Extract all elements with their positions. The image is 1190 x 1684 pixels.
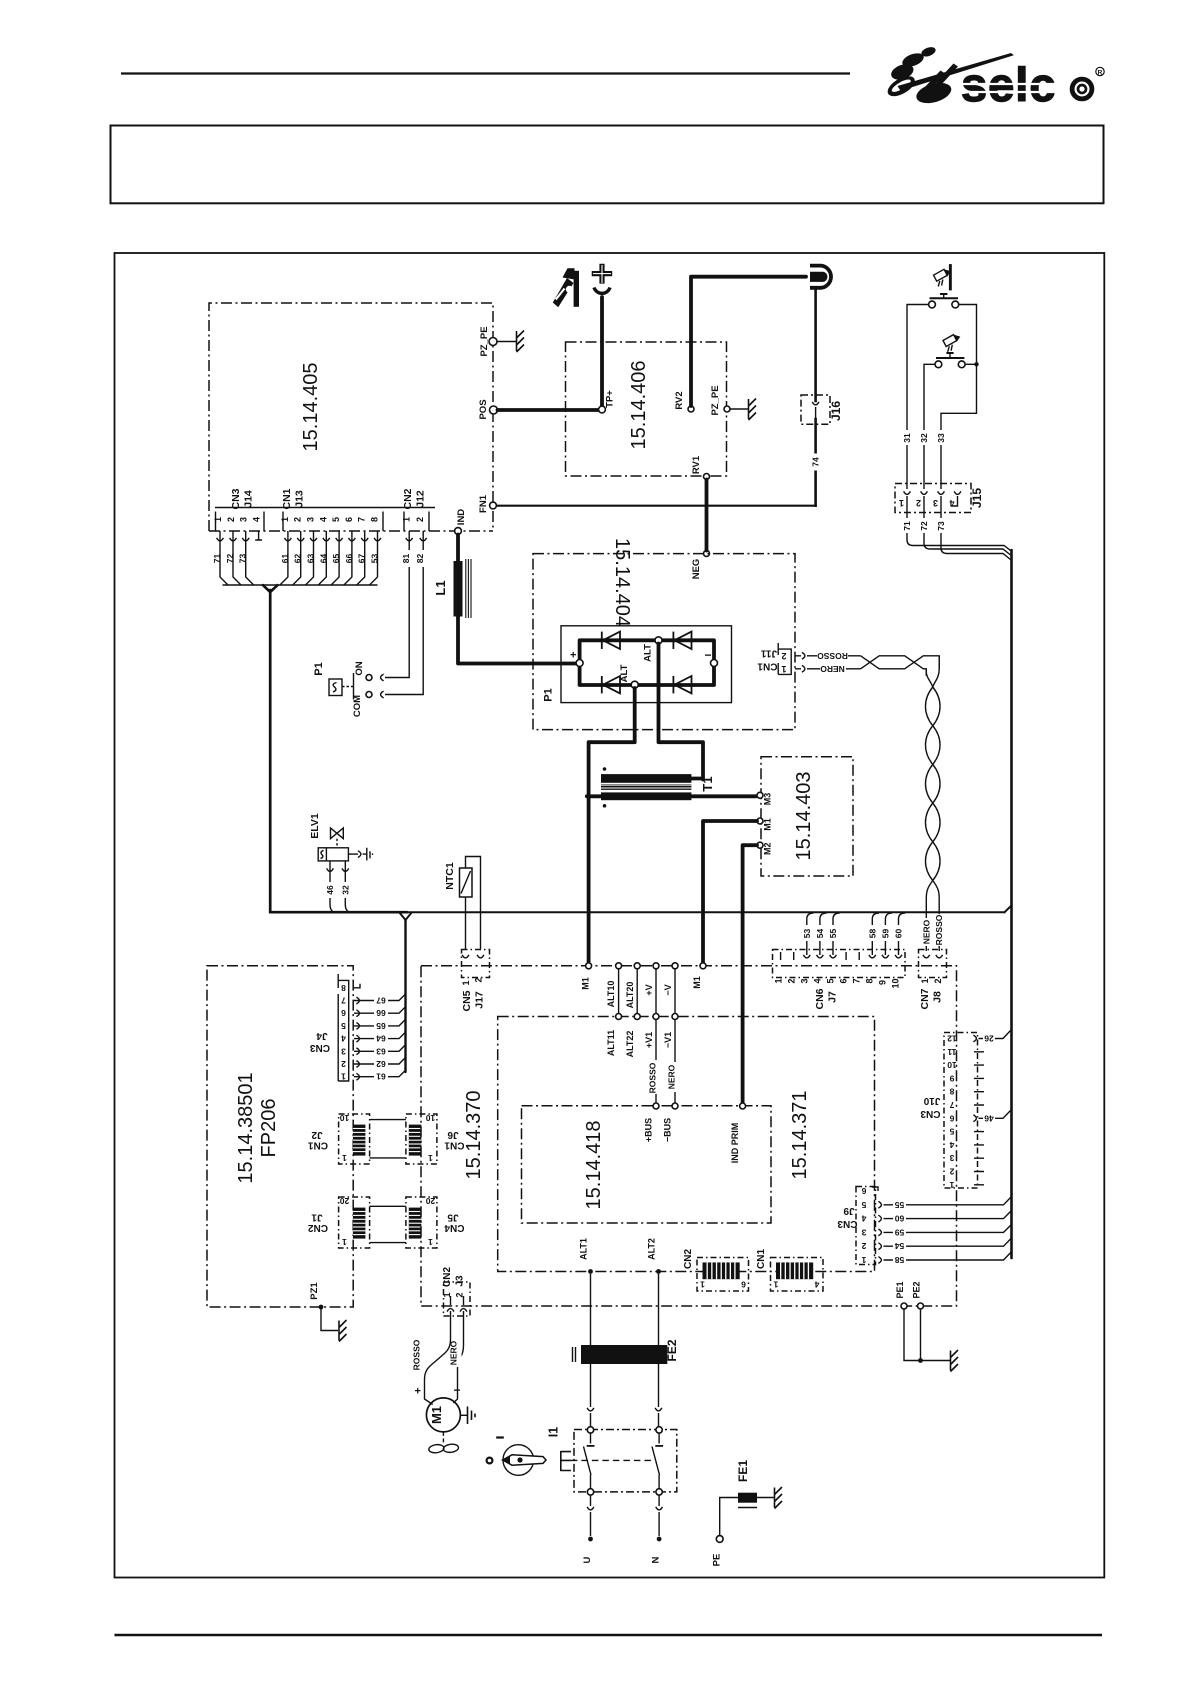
svg-text:FE2: FE2: [665, 1339, 679, 1361]
svg-text:4: 4: [814, 1280, 819, 1290]
svg-text:+V1: +V1: [644, 1032, 654, 1048]
svg-text:54: 54: [895, 1241, 905, 1251]
wires 81 82 to P1: [381, 531, 429, 698]
terminal -V1: [663, 1014, 678, 1049]
svg-text:FP206: FP206: [258, 1099, 280, 1158]
svg-text:15.14.370: 15.14.370: [463, 1091, 485, 1180]
svg-text:NTC1: NTC1: [444, 862, 456, 890]
harness bus vertical: [1010, 550, 1013, 1258]
svg-text:3: 3: [306, 517, 316, 522]
svg-text:CN3: CN3: [310, 1042, 330, 1053]
svg-text:6: 6: [341, 1008, 346, 1018]
motor M1: [415, 1383, 461, 1432]
svg-text:26: 26: [984, 1034, 994, 1044]
terminal IND: [455, 509, 467, 535]
board box 15.14.403: [761, 757, 853, 876]
svg-text:74: 74: [811, 457, 821, 467]
terminal PZ1 + ground: [309, 1282, 347, 1342]
wire IND to L1: [456, 535, 460, 562]
svg-text:4: 4: [949, 1140, 954, 1150]
rectifier P1 box: [543, 626, 732, 703]
svg-text:J14: J14: [243, 490, 255, 508]
svg-text:ALT: ALT: [643, 644, 654, 662]
svg-text:7: 7: [357, 517, 367, 522]
wire ALT1 down + FE2 + U: [582, 1274, 594, 1563]
CN3 J4 wires 67-61: [354, 994, 406, 1077]
secondary left stub: [587, 794, 601, 798]
terminal +V1: [644, 1014, 659, 1049]
rotary knob I1: [487, 1427, 561, 1476]
selco logo swoosh: [888, 45, 1014, 106]
CN6 J7 wires 53-60: [802, 913, 905, 955]
board box 15.14.370: [421, 966, 957, 1306]
connector J15: [895, 484, 984, 513]
wires ROSSO NERO to BUS: [648, 1020, 680, 1104]
svg-text:9: 9: [878, 980, 888, 985]
svg-text:55: 55: [895, 1200, 905, 1210]
svg-text:J5: J5: [447, 1212, 459, 1223]
terminal PZ_PE: [479, 326, 497, 356]
terminal IND PRIM: [730, 1103, 746, 1163]
svg-text:J7: J7: [827, 991, 839, 1003]
svg-text:5: 5: [826, 978, 836, 983]
svg-text:CN1: CN1: [757, 661, 777, 672]
svg-text:59: 59: [880, 929, 890, 939]
svg-text:2: 2: [781, 651, 786, 661]
svg-text:PE: PE: [712, 1554, 723, 1567]
svg-text:PE2: PE2: [912, 1281, 922, 1298]
connector CN2 J12: [402, 488, 430, 531]
board box 15.14.405: [209, 303, 493, 531]
svg-text:J17: J17: [474, 991, 486, 1009]
svg-text:+BUS: +BUS: [644, 1118, 654, 1142]
svg-text:ALT11: ALT11: [606, 1030, 616, 1056]
terminal FN1: [478, 494, 496, 513]
ELV1 gas valve: [309, 813, 373, 861]
svg-text:10: 10: [891, 978, 901, 988]
svg-text:1: 1: [461, 980, 471, 985]
svg-text:CN6: CN6: [814, 988, 826, 1009]
svg-text:CN2: CN2: [442, 1267, 453, 1287]
diode D2: [673, 632, 691, 649]
svg-text:P1: P1: [543, 688, 555, 701]
svg-text:2: 2: [933, 978, 943, 983]
svg-text:66: 66: [376, 1008, 386, 1018]
svg-text:4: 4: [949, 498, 954, 508]
inductor L1: [433, 559, 471, 618]
svg-text:PZ_PE: PZ_PE: [710, 385, 721, 415]
svg-text:ELV1: ELV1: [309, 813, 321, 839]
svg-text:61: 61: [376, 1072, 386, 1082]
svg-text:1: 1: [920, 978, 930, 983]
svg-text:1: 1: [428, 1153, 433, 1163]
svg-text:65: 65: [376, 1021, 386, 1031]
svg-text:J2: J2: [311, 1129, 323, 1140]
svg-text:4: 4: [318, 517, 328, 522]
svg-text:65: 65: [331, 554, 341, 564]
connector CN2 bottom: [683, 1249, 749, 1291]
svg-text:R: R: [1098, 69, 1103, 76]
svg-text:10: 10: [947, 1060, 957, 1070]
wire POS to TP+: [498, 297, 603, 410]
board box 15.14.371: [498, 1017, 875, 1272]
svg-text:64: 64: [318, 554, 328, 564]
svg-text:2: 2: [341, 1059, 346, 1069]
svg-text:NEG: NEG: [691, 559, 702, 580]
svg-text:1: 1: [773, 1280, 778, 1290]
svg-text:M3: M3: [763, 793, 773, 806]
svg-text:12: 12: [947, 1034, 957, 1044]
svg-text:J3: J3: [455, 1275, 466, 1287]
svg-text:+V: +V: [644, 984, 654, 995]
svg-text:1: 1: [428, 1237, 433, 1247]
transformer T1 primary: [601, 774, 691, 783]
svg-text:ALT10: ALT10: [606, 981, 616, 1008]
svg-text:3: 3: [861, 1227, 866, 1237]
svg-text:N: N: [651, 1556, 662, 1563]
NERO ROSSO labels at CN7: [921, 914, 944, 946]
connector CN5 J17: [461, 950, 490, 1012]
wire 74 gun to J16: [814, 290, 817, 401]
svg-text:58: 58: [895, 1255, 905, 1265]
thermal switch 2: [935, 353, 965, 368]
svg-text:NERO: NERO: [667, 1064, 677, 1089]
row2 link wires: [619, 969, 675, 1014]
svg-text:4: 4: [813, 978, 823, 983]
svg-text:COM: COM: [352, 695, 363, 717]
svg-text:CN4: CN4: [444, 1222, 464, 1233]
wire ALT2 down + N: [651, 1274, 663, 1563]
svg-text:53: 53: [370, 554, 380, 564]
svg-text:IND PRIM: IND PRIM: [730, 1123, 740, 1164]
svg-text:3: 3: [239, 517, 249, 522]
svg-text:82: 82: [415, 554, 425, 564]
polarity dot primary: [603, 767, 607, 771]
terminal ALT22: [625, 1014, 640, 1058]
terminal ALT bottom: [619, 664, 638, 688]
terminal ALT2: [647, 1238, 661, 1274]
wire FN1 line: [497, 505, 816, 507]
svg-text:9: 9: [949, 1073, 954, 1083]
svg-text:M1: M1: [692, 976, 702, 989]
wire 32: [924, 364, 935, 489]
diode D1: [602, 632, 620, 649]
wires ROSSO NERO to motor: [412, 1311, 464, 1396]
svg-text:4: 4: [861, 1214, 866, 1224]
ferrite FE1 + PE: [712, 1460, 783, 1567]
header rule: [121, 72, 850, 74]
svg-text:ROSSO: ROSSO: [934, 914, 944, 945]
twisted pair horizontal: [861, 656, 940, 676]
ribbon pair CN1 J2 / CN1 J6: [308, 1113, 370, 1164]
svg-text:CN2: CN2: [308, 1222, 328, 1233]
wire 31: [907, 305, 928, 490]
svg-text:6: 6: [839, 978, 849, 983]
svg-text:11: 11: [947, 1047, 956, 1057]
switch I1 box: [561, 1430, 677, 1492]
svg-text:46: 46: [325, 885, 335, 895]
svg-text:ROSSO: ROSSO: [817, 651, 848, 661]
terminal M3: [757, 792, 773, 805]
thermostat icon 1: [934, 264, 952, 290]
wire RV1-NEG: [705, 480, 709, 551]
svg-text:71: 71: [902, 521, 912, 531]
svg-text:1: 1: [899, 498, 904, 508]
svg-text:−V: −V: [663, 984, 673, 995]
ferrite FE2: [573, 1339, 680, 1364]
potentiometer P1: [313, 661, 372, 717]
svg-text:2: 2: [916, 498, 921, 508]
svg-text:60: 60: [894, 929, 904, 939]
svg-text:6: 6: [741, 1280, 746, 1290]
svg-text:CN1: CN1: [756, 1249, 767, 1269]
wire L1 to rectifier +: [458, 617, 576, 664]
svg-text:2: 2: [293, 517, 303, 522]
motor ground: [460, 1407, 475, 1425]
connector CN1 J13: [280, 488, 383, 531]
connector CN7 J8: [919, 950, 947, 1010]
svg-text:72: 72: [919, 521, 929, 531]
svg-text:63: 63: [306, 554, 316, 564]
svg-text:ALT20: ALT20: [625, 982, 635, 1009]
CN1 J13 pin wires 61-67 53: [223, 531, 381, 585]
svg-text:15.14.38501: 15.14.38501: [235, 1072, 257, 1183]
svg-text:+: +: [415, 1386, 421, 1398]
svg-text:2: 2: [949, 1167, 954, 1177]
connector J16: [801, 395, 843, 424]
terminal ALT20: [625, 963, 640, 1009]
rectifier wiring loop: [580, 640, 714, 685]
board box 15.14.406: [566, 342, 727, 476]
terminal ALT1: [579, 1238, 593, 1274]
svg-text:32: 32: [919, 433, 929, 443]
connector CN1 J11: [757, 643, 805, 674]
ribbon wires pair2: [370, 1206, 406, 1242]
terminal RV1: [691, 455, 710, 479]
svg-text:6: 6: [949, 1113, 954, 1123]
svg-text:20: 20: [340, 1196, 350, 1206]
svg-text:3: 3: [949, 1153, 954, 1163]
svg-text:33: 33: [936, 433, 946, 443]
connector CN3 J4: [310, 974, 360, 1082]
svg-text:1: 1: [861, 1255, 866, 1265]
svg-text:J13: J13: [294, 490, 306, 508]
svg-text:−: −: [705, 648, 712, 662]
svg-text:7: 7: [852, 978, 862, 983]
svg-text:5: 5: [949, 1127, 954, 1137]
svg-text:8: 8: [341, 983, 346, 993]
svg-text:CN3: CN3: [837, 1218, 857, 1229]
svg-text:CN5: CN5: [461, 990, 473, 1011]
polarity dot secondary: [603, 804, 607, 808]
svg-text:RV1: RV1: [691, 455, 702, 474]
svg-text:POS: POS: [478, 399, 489, 419]
svg-text:FE1: FE1: [736, 1460, 750, 1482]
svg-text:67: 67: [357, 554, 367, 564]
svg-text:32: 32: [340, 885, 350, 895]
svg-text:7: 7: [341, 996, 346, 1006]
svg-text:8: 8: [370, 517, 380, 522]
svg-text:62: 62: [376, 1059, 386, 1069]
svg-text:54: 54: [815, 929, 825, 939]
svg-text:81: 81: [401, 554, 411, 564]
svg-text:4: 4: [252, 517, 262, 522]
CN6 J7 pins: [774, 952, 902, 989]
svg-text:7: 7: [949, 1100, 954, 1110]
svg-text:4: 4: [341, 1034, 346, 1044]
connector CN2 J3: [442, 1267, 470, 1316]
terminal M1: [757, 818, 773, 831]
terminal PE2: [912, 1281, 924, 1309]
board box 15.14.38501 FP206: [207, 966, 353, 1307]
svg-text:60: 60: [895, 1214, 905, 1224]
svg-text:J1: J1: [311, 1212, 323, 1223]
svg-text:2: 2: [861, 1241, 866, 1251]
svg-text:59: 59: [895, 1227, 905, 1237]
svg-text:NERO: NERO: [820, 664, 845, 674]
selco logo text: [961, 58, 1104, 111]
ribbon wires pair1: [370, 1120, 406, 1158]
twisted pair vertical: [925, 656, 940, 951]
svg-text:P1: P1: [313, 662, 325, 675]
svg-text:64: 64: [376, 1034, 386, 1044]
terminal M1 right: [692, 963, 706, 989]
wire RV2 to gun: [691, 277, 806, 406]
board box 15.14.404: [533, 538, 795, 730]
CN3 J4 bundle vertical: [400, 914, 411, 1073]
terminal -V: [663, 963, 678, 996]
svg-text:71: 71: [212, 554, 222, 564]
svg-text:−V1: −V1: [663, 1032, 673, 1048]
svg-text:NERO: NERO: [921, 919, 931, 944]
wire M2 to IND PRIM: [743, 845, 757, 1103]
thermal switch 1: [929, 294, 959, 308]
connector CN1 bottom: [756, 1249, 823, 1291]
terminal POS: [478, 399, 498, 419]
svg-text:66: 66: [344, 554, 354, 564]
PE ground wiring: [904, 1309, 958, 1372]
svg-text:J11: J11: [760, 648, 777, 659]
electrode holder icon: [553, 268, 579, 307]
switch2 right stub: [965, 363, 976, 365]
svg-text:J8: J8: [932, 991, 944, 1003]
svg-text:10: 10: [340, 1113, 350, 1123]
svg-text:1: 1: [700, 1280, 705, 1290]
thermostat icon 2: [943, 335, 960, 352]
main schematic border: [115, 253, 1105, 1578]
svg-text:J12: J12: [415, 490, 427, 508]
svg-text:J9: J9: [843, 1205, 855, 1216]
svg-text:CN1: CN1: [281, 488, 293, 509]
svg-text:U: U: [582, 1556, 593, 1563]
svg-text:CN2: CN2: [683, 1249, 694, 1269]
terminal PE1: [895, 1281, 907, 1309]
svg-text:5: 5: [861, 1200, 866, 1210]
svg-text:1: 1: [280, 517, 290, 522]
svg-text:ALT1: ALT1: [579, 1238, 589, 1260]
terminal -: [705, 648, 718, 667]
svg-text:L1: L1: [433, 580, 448, 595]
CN3 J14 pin wires 71 72 73: [212, 531, 262, 585]
wire 46: [973, 1110, 1011, 1123]
ELV1 wires 46 32: [325, 861, 350, 912]
svg-text:6: 6: [861, 1186, 866, 1196]
transformer T1 secondary: [601, 792, 691, 800]
svg-text:T1: T1: [700, 776, 715, 791]
svg-text:8: 8: [949, 1087, 954, 1097]
connector strip line: [215, 507, 435, 509]
connector CN3 J10: [920, 1033, 977, 1189]
svg-text:72: 72: [225, 554, 235, 564]
svg-text:58: 58: [867, 929, 877, 939]
wire 26: [973, 1030, 1011, 1044]
svg-text:FN1: FN1: [478, 494, 489, 513]
motor fan: [428, 1432, 459, 1454]
svg-text:31: 31: [902, 433, 912, 443]
svg-text:1: 1: [402, 517, 412, 522]
svg-text:61: 61: [280, 554, 290, 564]
svg-text:J4: J4: [316, 1030, 328, 1041]
ribbon CN4 J5: [406, 1196, 465, 1248]
terminal -BUS: [663, 1103, 679, 1142]
svg-text:+: +: [570, 650, 576, 662]
terminal +BUS: [644, 1103, 660, 1142]
ribbon CN1 J6: [406, 1113, 465, 1164]
svg-text:1: 1: [774, 978, 784, 983]
svg-text:73: 73: [238, 554, 248, 564]
svg-text:63: 63: [376, 1046, 386, 1056]
ground at PZ_PE: [497, 331, 524, 353]
svg-text:73: 73: [936, 521, 946, 531]
svg-text:1: 1: [213, 517, 223, 522]
connector CN3 J14: [213, 488, 264, 531]
svg-text:J10: J10: [923, 1095, 940, 1106]
svg-text:CN3: CN3: [920, 1108, 940, 1119]
diode D4: [673, 676, 691, 693]
terminal +V: [644, 963, 659, 996]
svg-text:CN2: CN2: [402, 488, 414, 509]
svg-text:J16: J16: [829, 401, 843, 421]
ribbon pair CN2 J1 / CN4 J5: [308, 1196, 370, 1248]
terminal M1 left: [581, 963, 592, 990]
svg-text:M1: M1: [581, 977, 591, 990]
terminal ALT10: [606, 963, 622, 1008]
svg-text:10: 10: [426, 1113, 436, 1123]
svg-text:15.14.405: 15.14.405: [300, 363, 322, 452]
svg-text:M2: M2: [763, 842, 773, 855]
svg-text:M1: M1: [429, 1406, 444, 1424]
svg-text:6: 6: [344, 517, 354, 522]
bus horizontal right: [407, 906, 1011, 912]
wire labels 31 32 33: [902, 430, 946, 445]
terminal PZ_PE 406: [710, 385, 730, 415]
ground at PZ_PE 406: [730, 399, 756, 421]
svg-text:67: 67: [376, 996, 386, 1006]
svg-text:ON: ON: [354, 661, 365, 675]
svg-text:NERO: NERO: [449, 1340, 459, 1365]
svg-text:8: 8: [865, 978, 875, 983]
svg-text:1: 1: [341, 1072, 346, 1082]
svg-text:ALT22: ALT22: [625, 1031, 635, 1058]
svg-text:15.14.404: 15.14.404: [611, 538, 633, 627]
terminal +: [570, 650, 583, 667]
core lines: [601, 785, 691, 790]
main feeder bundle from connectors: [263, 585, 277, 912]
svg-text:15.14.403: 15.14.403: [793, 772, 815, 861]
terminal ALT top: [643, 637, 663, 662]
terminal NEG: [691, 551, 710, 580]
ALT leads to transformer: [589, 688, 635, 966]
